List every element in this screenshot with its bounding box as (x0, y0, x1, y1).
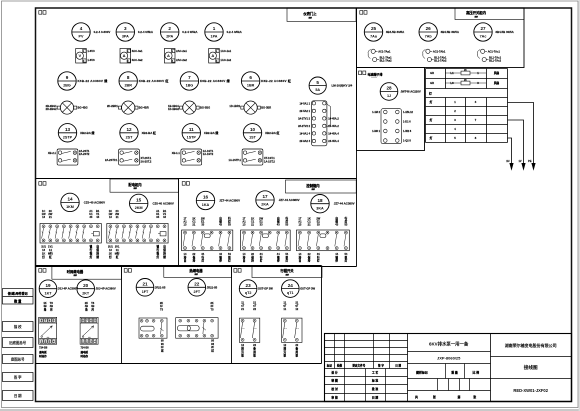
svg-text:1K: 1K (42, 251, 45, 255)
svg-text:LM-10(6)KV 2/4: LM-10(6)KV 2/4 (332, 84, 353, 88)
svg-text:3AC-3a2: 3AC-3a2 (132, 58, 143, 62)
svg-text:2: 2 (168, 26, 171, 31)
svg-text:角: 角 (85, 308, 88, 312)
svg-text:13: 13 (65, 127, 71, 132)
svg-text:AC1-7Aa1: AC1-7Aa1 (378, 49, 391, 53)
svg-text:8: 8 (127, 75, 130, 80)
svg-text:1AC-1a1: 1AC-1a1 (220, 49, 231, 53)
svg-text:1: 1 (213, 26, 216, 31)
svg-text:BL1-7Aa2: BL1-7Aa2 (380, 59, 393, 63)
svg-text:日 期: 日 期 (372, 396, 379, 400)
svg-text:描 校: 描 校 (14, 324, 22, 329)
svg-text:5A: 5A (315, 88, 320, 92)
svg-text:1-6V3: 1-6V3 (87, 49, 95, 53)
svg-text:K6B-22 AC380V 红: K6B-22 AC380V 红 (139, 78, 169, 83)
svg-text:1D-1BG2: 1D-1BG2 (168, 107, 180, 111)
svg-text:保: 保 (162, 248, 166, 252)
svg-text:1KA: 1KA (202, 203, 210, 207)
svg-text:自: 自 (163, 245, 166, 249)
svg-text:qT: qT (253, 304, 257, 308)
svg-text:2A-2ST.2: 2A-2ST.2 (141, 159, 152, 163)
svg-text:1#-9A1 4: 1#-9A1 4 (300, 131, 311, 135)
svg-text:泵: 泵 (253, 353, 256, 357)
svg-text:17: 17 (262, 194, 268, 199)
svg-text:PE: PE (528, 160, 532, 163)
svg-text:A: A (167, 53, 170, 58)
svg-text:高压开关柜内: 高压开关柜内 (466, 10, 486, 15)
svg-text:JZ7-44 AC380V: JZ7-44 AC380V (279, 198, 300, 202)
svg-text:停: 停 (277, 258, 280, 262)
svg-text:灯: 灯 (345, 258, 348, 262)
svg-text:图样标记: 图样标记 (416, 370, 428, 375)
svg-text:行: 行 (155, 248, 159, 252)
svg-text:制 图: 制 图 (331, 379, 338, 383)
svg-text:BG-3BR: BG-3BR (261, 106, 271, 110)
svg-text:1A-1STP.1: 1A-1STP.1 (229, 158, 242, 162)
svg-text:V: V (78, 53, 81, 58)
svg-text:2A-2STP.1: 2A-2STP.1 (105, 158, 118, 162)
svg-text:比 例: 比 例 (473, 370, 480, 375)
svg-text:1KT: 1KT (45, 291, 53, 295)
svg-text:泵: 泵 (296, 353, 299, 357)
svg-text:1-W2 8: 1-W2 8 (403, 129, 412, 133)
svg-text:K6B-22 AC380V 红: K6B-22 AC380V 红 (261, 78, 291, 83)
svg-text:qT: qT (241, 304, 245, 308)
svg-text:程: 程 (89, 251, 93, 255)
svg-text:3AC-3a1: 3AC-3a1 (132, 49, 143, 53)
svg-text:2D-2BG2: 2D-2BG2 (46, 107, 58, 111)
svg-text:1V1: 1V1 (48, 245, 53, 249)
svg-text:灯: 灯 (430, 136, 433, 140)
svg-text:标 准: 标 准 (371, 379, 379, 383)
svg-text:张: 张 (433, 394, 436, 399)
svg-text:' ' ' ' ' ': ' ' ' ' ' ' (371, 77, 377, 79)
svg-text:1#-45A.2: 1#-45A.2 (328, 116, 339, 120)
svg-text:14: 14 (67, 197, 73, 202)
svg-text:4B: 4B (50, 304, 53, 308)
svg-text:A: A (123, 53, 126, 58)
svg-text:湖南荣尔输变电股份有限公司: 湖南荣尔输变电股份有限公司 (505, 342, 557, 348)
svg-text:2AC-2a1: 2AC-2a1 (176, 49, 187, 53)
svg-text:3: 3 (124, 26, 127, 31)
svg-text:自: 自 (96, 245, 99, 249)
svg-text:BG-4BG: BG-4BG (78, 106, 88, 110)
svg-text:XB-2.1: XB-2.1 (48, 151, 57, 155)
svg-text:3PA: 3PA (122, 35, 129, 39)
svg-text:底图总号: 底图总号 (10, 356, 25, 361)
svg-text:灯: 灯 (109, 255, 112, 259)
svg-text:2F: 2F (210, 304, 213, 308)
svg-text:2U1: 2U1 (108, 245, 113, 249)
svg-text:BL1-7Ac2: BL1-7Ac2 (489, 59, 502, 63)
svg-text:qT: qT (295, 304, 299, 308)
svg-text:4B: 4B (43, 304, 46, 308)
svg-text:JR21-85: JR21-85 (207, 285, 218, 289)
svg-text:27: 27 (480, 26, 486, 31)
svg-text:3KA: 3KA (316, 206, 324, 210)
svg-text:日 期: 日 期 (395, 364, 401, 368)
svg-text:共: 共 (415, 394, 418, 399)
svg-text:4B: 4B (91, 304, 94, 308)
svg-text:23: 23 (246, 283, 252, 288)
svg-text:6: 6 (249, 75, 252, 80)
svg-text:16: 16 (203, 195, 209, 200)
svg-text:JXP-8060/25: JXP-8060/25 (437, 356, 461, 361)
svg-text:12: 12 (126, 127, 132, 132)
svg-text:备: 备 (252, 347, 256, 351)
svg-text:用: 用 (252, 350, 256, 354)
svg-text:1A-1ST1: 1A-1ST1 (203, 149, 214, 153)
svg-text:24: 24 (288, 283, 294, 288)
svg-text:25: 25 (371, 26, 377, 31)
svg-text:角: 角 (44, 308, 47, 312)
svg-text:JR21-85: JR21-85 (155, 285, 166, 289)
svg-text:控制箱内: 控制箱内 (306, 183, 320, 188)
svg-text:持: 持 (307, 258, 311, 262)
svg-text:备: 备 (295, 347, 299, 351)
svg-text:BG-4BR: BG-4BR (139, 106, 149, 110)
svg-text:灯: 灯 (429, 92, 432, 96)
svg-text:1U1: 1U1 (41, 245, 46, 249)
svg-text:26: 26 (426, 26, 432, 31)
svg-text:1FT: 1FT (142, 290, 149, 294)
svg-text:1ST: 1ST (249, 135, 257, 139)
svg-text:泵: 泵 (241, 353, 244, 357)
svg-text:设 计: 设 计 (331, 371, 338, 375)
svg-text:JZ7-44 AC380V: JZ7-44 AC380V (334, 202, 355, 206)
svg-text:RED-XW01-JXF02: RED-XW01-JXF02 (513, 388, 548, 393)
svg-text:3B4.5B 30/5A: 3B4.5B 30/5A (386, 30, 405, 34)
svg-text:2#-2TV2 2: 2#-2TV2 2 (298, 124, 310, 128)
svg-text:1AC-1a2: 1AC-1a2 (220, 58, 231, 62)
svg-text:行程开关: 行程开关 (279, 268, 294, 273)
svg-text:电流端子排: 电流端子排 (368, 72, 383, 77)
svg-text:灯: 灯 (201, 258, 204, 262)
svg-text:张: 张 (473, 394, 476, 399)
svg-text:1F: 1F (160, 304, 163, 308)
svg-text:7Ac: 7Ac (480, 35, 487, 39)
svg-text:A: A (211, 53, 214, 58)
svg-text:19: 19 (45, 283, 51, 288)
svg-text:2K: 2K (160, 301, 163, 305)
svg-text:借(通)用件登记: 借(通)用件登记 (7, 290, 28, 295)
svg-text:月: 月 (90, 308, 94, 312)
svg-text:时间继电器: 时间继电器 (67, 269, 84, 274)
svg-text:处数: 处数 (336, 364, 343, 368)
svg-text:3B4.5B 30/5A: 3B4.5B 30/5A (495, 30, 514, 34)
svg-text:2D-2BR1: 2D-2BR1 (107, 104, 118, 108)
svg-text:更改文件号: 更改文件号 (351, 364, 365, 368)
svg-text:1#-45A.4: 1#-45A.4 (328, 131, 339, 135)
svg-text:签 字: 签 字 (377, 364, 384, 368)
svg-text:2STP: 2STP (63, 135, 73, 139)
svg-text:qT2: qT2 (245, 291, 252, 295)
svg-text:灯: 灯 (430, 100, 433, 104)
svg-text:自: 自 (243, 258, 246, 262)
svg-text:自: 自 (184, 258, 187, 262)
svg-text:GST-GP 3W: GST-GP 3W (300, 287, 315, 291)
svg-text:qT1: qT1 (287, 291, 294, 295)
svg-text:K6B-22 AC380V 绿: K6B-22 AC380V 绿 (200, 78, 231, 83)
svg-text:2K: 2K (210, 301, 213, 305)
svg-text:时动作: 时动作 (81, 354, 89, 358)
svg-text:2KM: 2KM (135, 206, 143, 210)
svg-text:M行: M行 (115, 251, 120, 255)
svg-text:2AC-2a2: 2AC-2a2 (176, 58, 187, 62)
svg-text:热继电器: 热继电器 (189, 268, 203, 273)
svg-text:XB2-BA 绿: XB2-BA 绿 (80, 130, 95, 135)
svg-text:停: 停 (335, 258, 338, 262)
svg-text:0.2-4 0/5kA: 0.2-4 0/5kA (138, 30, 154, 34)
svg-text:qT: qT (283, 304, 287, 308)
svg-text:接线图: 接线图 (524, 364, 538, 371)
svg-text:JSJ-4P AC380V: JSJ-4P AC380V (58, 287, 78, 291)
svg-text:污: 污 (284, 350, 287, 354)
svg-text:JWT46 AC220V: JWT46 AC220V (401, 90, 421, 94)
svg-text:1V: 1V (518, 160, 521, 163)
svg-text:1-Q2 8: 1-Q2 8 (403, 139, 411, 143)
svg-text:JZ7-44 AC380V: JZ7-44 AC380V (219, 199, 240, 203)
svg-text:1#-2TV1 2: 1#-2TV1 2 (298, 116, 310, 120)
svg-text:7Aa: 7Aa (370, 35, 378, 39)
svg-text:2FT: 2FT (194, 290, 201, 294)
svg-text:旧底图总号: 旧底图总号 (9, 340, 27, 345)
svg-text:行: 行 (89, 248, 93, 252)
svg-text:持: 持 (250, 258, 254, 262)
svg-text:724-B8: 724-B8 (39, 347, 48, 350)
svg-text:1PA: 1PA (211, 35, 218, 39)
svg-text:停: 停 (219, 258, 222, 262)
svg-text:M行: M行 (48, 251, 53, 255)
svg-text:XB-1.1: XB-1.1 (172, 151, 181, 155)
svg-text:灯: 灯 (260, 258, 263, 262)
svg-text:2PA: 2PA (166, 35, 173, 39)
svg-text:0.2-4 0/5kA: 0.2-4 0/5kA (227, 30, 243, 34)
svg-text:1K: 1K (109, 251, 112, 255)
svg-text:10: 10 (250, 127, 256, 132)
svg-text:2#-45A.4: 2#-45A.4 (328, 139, 339, 143)
svg-text:灯: 灯 (228, 258, 231, 262)
svg-text:1-D1 6: 1-D1 6 (403, 120, 411, 124)
svg-text:通电延: 通电延 (81, 350, 89, 354)
svg-text:配电柜内: 配电柜内 (128, 182, 142, 187)
svg-text:22: 22 (194, 282, 200, 287)
svg-text:BL1-7Ab2: BL1-7Ab2 (434, 59, 447, 63)
svg-text:1J: 1J (387, 94, 391, 98)
svg-text:1BG: 1BG (186, 84, 194, 88)
svg-text:28: 28 (386, 86, 392, 91)
svg-text:6KV排水泵一用一备: 6KV排水泵一用一备 (429, 341, 469, 348)
svg-text:审 核: 审 核 (331, 396, 338, 400)
svg-text:重 量: 重 量 (451, 370, 458, 375)
svg-text:灯: 灯 (90, 255, 93, 259)
svg-text:20: 20 (83, 283, 89, 288)
svg-text:1#-5A1 1: 1#-5A1 1 (300, 101, 311, 105)
svg-text:灯: 灯 (317, 258, 320, 262)
svg-text:2KT: 2KT (82, 291, 90, 295)
svg-text:签 字: 签 字 (13, 374, 22, 379)
svg-text:21: 21 (142, 282, 148, 287)
svg-text:月: 月 (49, 308, 53, 312)
svg-text:5: 5 (316, 80, 319, 85)
svg-text:9: 9 (66, 75, 69, 80)
svg-text:排: 排 (284, 347, 287, 351)
svg-text:1K: 1K (43, 301, 46, 305)
svg-text:18: 18 (317, 198, 323, 203)
svg-text:仪表门上: 仪表门上 (302, 11, 317, 16)
svg-text:绿: 绿 (163, 255, 166, 259)
svg-text:标记: 标记 (326, 364, 333, 368)
svg-text:过: 过 (211, 349, 214, 353)
svg-text:XB2-BA 绿: XB2-BA 绿 (204, 130, 219, 135)
svg-text:排: 排 (241, 347, 244, 351)
svg-text:1A-1ST.2: 1A-1ST.2 (264, 159, 275, 163)
svg-text:2A-2ST1: 2A-2ST1 (79, 149, 90, 153)
svg-text:通电延: 通电延 (39, 350, 47, 354)
svg-text:GR: GR (430, 81, 434, 85)
svg-text:红: 红 (116, 255, 119, 259)
svg-text:4: 4 (80, 26, 83, 31)
svg-text:数 量: 数 量 (13, 298, 22, 303)
svg-text:1U: 1U (506, 160, 509, 163)
svg-text:持: 持 (192, 258, 196, 262)
svg-text:1-1M 2: 1-1M 2 (372, 110, 381, 114)
svg-text:风扇: 风扇 (494, 81, 500, 85)
svg-text:AC1-7Ac1: AC1-7Ac1 (488, 49, 501, 53)
svg-text:XT-1ST.1: XT-1ST.1 (264, 156, 275, 160)
svg-text:0.2-4 0-600V: 0.2-4 0-600V (94, 30, 111, 34)
svg-text:4B: 4B (85, 304, 88, 308)
svg-text:2BG: 2BG (63, 84, 71, 88)
svg-text:污: 污 (241, 350, 244, 354)
svg-text:2#-5A2 1: 2#-5A2 1 (300, 109, 311, 113)
svg-text:泵: 泵 (284, 353, 287, 357)
svg-text:3B4.5B 30/5A: 3B4.5B 30/5A (441, 30, 460, 34)
svg-text:1-M6 1: 1-M6 1 (372, 129, 381, 133)
svg-text:保: 保 (95, 248, 99, 252)
svg-text:灯: 灯 (430, 118, 433, 122)
svg-text:JSJ-4P AC380V: JSJ-4P AC380V (96, 287, 116, 291)
svg-text:灯: 灯 (42, 255, 45, 259)
svg-text:1BR: 1BR (247, 84, 255, 88)
svg-text:2V1: 2V1 (115, 245, 120, 249)
svg-text:校 对: 校 对 (331, 387, 338, 391)
svg-text:1-1BL12: 1-1BL12 (403, 110, 413, 114)
svg-text:用: 用 (295, 350, 299, 354)
svg-text:自: 自 (299, 258, 302, 262)
svg-text:2KA: 2KA (261, 203, 269, 207)
svg-text:2A-2ST2: 2A-2ST2 (79, 152, 90, 156)
svg-text:11: 11 (189, 127, 194, 132)
svg-text:GST-GP 3W: GST-GP 3W (258, 287, 273, 291)
svg-text:锁: 锁 (90, 245, 93, 249)
svg-text:红: 红 (49, 255, 52, 259)
svg-text:过: 过 (161, 349, 164, 353)
svg-text:2#-9A2 4: 2#-9A2 4 (300, 139, 311, 143)
svg-text:时动作: 时动作 (39, 354, 47, 358)
svg-text:2ST: 2ST (126, 135, 134, 139)
svg-text:灯: 灯 (156, 255, 159, 259)
svg-text:风扇: 风扇 (494, 71, 500, 75)
svg-text:2K: 2K (85, 301, 88, 305)
svg-text:XT-2ST.1: XT-2ST.1 (141, 156, 152, 160)
svg-text:7Ab: 7Ab (425, 35, 433, 39)
svg-text:第: 第 (458, 394, 461, 399)
svg-text:2#-45A.2: 2#-45A.2 (328, 124, 339, 128)
svg-text:1A-1ST2: 1A-1ST2 (203, 152, 214, 156)
svg-text:程: 程 (155, 251, 159, 255)
svg-text:XB2-BA 红: XB2-BA 红 (265, 130, 279, 135)
svg-text:持: 持 (95, 251, 99, 255)
svg-text:1-6V6: 1-6V6 (87, 58, 95, 62)
svg-text:PV: PV (79, 35, 84, 39)
svg-text:1D-1BR1: 1D-1BR1 (229, 104, 240, 108)
svg-text:GR: GR (430, 71, 434, 75)
svg-text:7: 7 (188, 75, 191, 80)
svg-text:绿: 绿 (96, 255, 99, 259)
svg-text:15: 15 (136, 198, 142, 203)
svg-text:XB2-BA 红: XB2-BA 红 (142, 130, 156, 135)
svg-text:1STP: 1STP (187, 135, 197, 139)
svg-text:BG-3BG: BG-3BG (200, 106, 210, 110)
svg-text:1KM: 1KM (66, 205, 74, 209)
svg-text:灯: 灯 (286, 258, 289, 262)
svg-text:批 准: 批 准 (372, 387, 379, 391)
svg-text:CZ0-40 AC380V: CZ0-40 AC380V (153, 201, 174, 205)
svg-text:日 期: 日 期 (14, 393, 22, 398)
svg-text:AC1-7Ab1: AC1-7Ab1 (433, 49, 446, 53)
svg-text:CZ0-40 AC380V: CZ0-40 AC380V (84, 200, 105, 204)
svg-text:工 艺: 工 艺 (372, 371, 379, 375)
svg-text:持: 持 (162, 251, 166, 255)
svg-text:K6B-22 AC380V 绿: K6B-22 AC380V 绿 (78, 78, 109, 83)
svg-text:锁: 锁 (156, 245, 159, 249)
svg-text:724-B8: 724-B8 (81, 347, 90, 350)
svg-text:2BR: 2BR (125, 84, 133, 88)
svg-text:0.2-4 0/5kA: 0.2-4 0/5kA (182, 30, 198, 34)
